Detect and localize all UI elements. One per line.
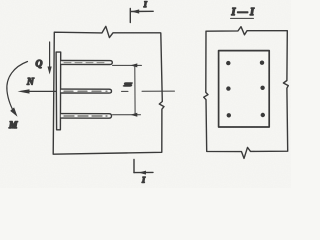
- anchor plate (section view): [219, 51, 270, 127]
- bolt dot row1 right: [260, 61, 264, 65]
- force Q arrow (downward): [48, 42, 52, 75]
- dimension z between rods: extension lines with arrowheads: [113, 63, 142, 116]
- concrete outline (section view, breaks on all sides): [204, 27, 289, 159]
- svg-text:M: M: [8, 121, 18, 131]
- centerline of middle rod (dash-dot): [122, 90, 175, 92]
- anchor rod 3 (bottom): [61, 114, 112, 119]
- rod 1 inner hatch: [64, 62, 108, 64]
- title underline: [231, 17, 254, 19]
- force N arrow (leftward): [18, 89, 57, 93]
- svg-text:I: I: [143, 0, 148, 9]
- svg-text:I—I: I—I: [231, 7, 256, 18]
- svg-text:z: z: [122, 82, 133, 88]
- bolt dot row3 right: [261, 113, 265, 117]
- rod 3 inner hatch: [64, 115, 107, 117]
- concrete block outline (elevation view, with break lines): [53, 26, 164, 154]
- bolt dot row2 left: [226, 86, 230, 90]
- bolt dot row2 right: [260, 86, 264, 90]
- moment M curved arrow: [7, 62, 28, 117]
- svg-text:N: N: [26, 78, 35, 88]
- svg-text:I: I: [141, 176, 146, 185]
- section mark I (top): [130, 9, 153, 23]
- anchor rod 1 (top): [61, 61, 113, 65]
- section mark I (bottom): [134, 160, 153, 175]
- anchor rod 2 (middle): [61, 89, 112, 93]
- svg-text:Q: Q: [36, 60, 43, 70]
- bolt dot row1 left: [226, 61, 230, 65]
- rod 2 inner hatch: [64, 90, 107, 92]
- bolt dot row3 left: [227, 113, 231, 117]
- embedded plate (elevation): [56, 52, 61, 130]
